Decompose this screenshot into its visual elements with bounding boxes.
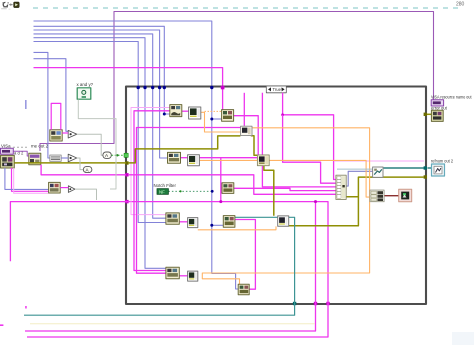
wire: olive stub under build array — [339, 196, 358, 198]
junction: blue dots inside — [210, 118, 213, 121]
comparison triangle T2 — [68, 154, 77, 162]
wire: magenta band vertical 2 to node N1d — [137, 128, 241, 274]
junction: magenta tunnel on top border — [221, 86, 225, 90]
node: VISA open (name out 2) — [29, 153, 41, 164]
junction: olive tunnel on left border — [125, 161, 128, 164]
wire: orange N2b out to unbundle left input — [199, 160, 370, 197]
junction: magenta dot at 282.6,114.8 — [281, 113, 284, 116]
wire: magenta mid node output to build array — [234, 188, 336, 190]
node N2b: display row2 (dark icon) — [188, 155, 200, 166]
svg-text:refnum out 2: refnum out 2 — [431, 159, 454, 164]
wire: magenta row1 node to display — [182, 110, 189, 112]
node: ring indicator (red border) — [399, 189, 412, 202]
node: boolean local A (oval) — [103, 152, 111, 158]
node: lavender stub segment left — [25, 100, 27, 109]
junction: blue tunnel dots on top border — [137, 86, 140, 89]
node: build array — [336, 175, 346, 199]
wire: magenta stub at very top of bottom-left lines — [25, 306, 27, 309]
wire: blue short line 8 — [34, 59, 69, 132]
wire: green dashed boolean wire A to tunnel — [112, 154, 125, 156]
node N3c: analysis VI row3 (yellow) — [223, 216, 235, 228]
toolbar icon: run button dark square — [14, 2, 20, 8]
wire: magenta y174.8 to build-array feeder x253.8 — [128, 175, 336, 195]
svg-text:280: 280 — [456, 2, 465, 8]
case selector label True — [266, 86, 286, 93]
node N4b: display row4 (dark icon) — [188, 271, 198, 281]
wire: violet array wire build array to write node — [346, 171, 372, 186]
node N1b: waveform display (dark icon) — [189, 107, 201, 119]
wire: olive error path: border to N1d lower input — [128, 136, 240, 163]
wire: magenta from border down to node N1d — [243, 93, 245, 126]
junction: bottom border tunnels — [293, 302, 296, 305]
wire: purple short link VISA box to node — [13, 151, 28, 156]
wire: blue bundle line 6 — [34, 42, 167, 223]
wire: gray frame wire from x-and-y block — [78, 99, 116, 189]
node N2c: VI with dark center row2 right (yellow) — [257, 155, 269, 166]
node: unbundle by name (striped) — [370, 190, 384, 202]
wire: pale blue into write node — [337, 168, 373, 170]
node: boolean local A 2 (oval) — [83, 167, 92, 173]
wire: magenta from tan block down and right (y191.5) — [12, 168, 49, 191]
node N3b: display row3 (dark icon) — [188, 218, 198, 228]
decorative faint corner smudge — [452, 332, 474, 345]
wire: magenta long left wire y201.6 with dangling drop — [10, 202, 328, 337]
wire: magenta drop from y157.7 joining y201.6 line — [220, 158, 222, 202]
wire: magenta x282.6 lower leg and y162.2 branch — [283, 115, 336, 183]
wire: magenta N2a to N2b — [181, 157, 188, 159]
wire: magenta drop x315.5 from long line to bottom — [25, 202, 316, 331]
svg-text:error out: error out — [431, 105, 448, 110]
wire: blue from tan block down and right (y189.6) — [5, 168, 49, 190]
junction: teal + olive tunnels on right border — [424, 166, 427, 169]
wire: blue striped block to T2 — [61, 157, 68, 159]
svg-text:NF: NF — [159, 189, 165, 194]
node: scaling node left-bottom (yellow) — [49, 182, 61, 193]
wire: blue bundle line 3 — [34, 30, 168, 158]
node N3a: instrument VI row3 (yellow) — [166, 213, 179, 224]
wire: light pink y161 to right border — [334, 160, 424, 162]
wire: orange N3b out to white node bottom — [198, 226, 276, 229]
node: left cluster constant block (tan) — [1, 155, 15, 168]
svg-text:VISA resource name out: VISA resource name out — [431, 95, 472, 100]
wire: olive N2c out to white node top — [264, 166, 274, 216]
wire: teal from N3c to bottom left line — [24, 217, 295, 315]
wire: magenta band vertical 1 — [134, 111, 170, 271]
node N4a: instrument VI row4 (yellow) — [166, 267, 179, 278]
wire: pale yellow faint bottom wire — [30, 323, 315, 325]
node: VISA resource name out indicator (purple box) — [431, 100, 443, 106]
svg-text:VISa: VISa — [1, 144, 11, 149]
wire: magenta stub at left edge bottom — [0, 324, 3, 326]
wire: magenta N1c out to N2c top — [234, 116, 258, 155]
svg-text:Notch Filter: Notch Filter — [154, 183, 177, 188]
node: white node with dark icon (matrix) — [278, 216, 289, 226]
wire: magenta N4a to N4b — [179, 275, 187, 277]
wire: teal dashed timing wire (top) — [33, 7, 463, 9]
wire: orange N1d out big loop right and down to N4c — [202, 128, 369, 284]
svg-text:True: True — [273, 87, 282, 92]
wire: olive stub outside loop to error out block — [426, 113, 431, 115]
wire: light pink band vertical — [131, 108, 170, 215]
case structure border — [126, 87, 426, 305]
wire: olive N1d out to N2c top — [251, 136, 258, 156]
wire: magenta N3c output down to N4c — [235, 220, 255, 290]
svg-text:me out 2: me out 2 — [31, 144, 49, 149]
wire: magenta top long wire into loop — [34, 68, 223, 110]
node N1a: instrument VI row1 (yellow) — [170, 105, 182, 117]
node: VISA resource name control (purple box) — [1, 148, 14, 154]
wire: olive white node out up to border tunnel — [289, 177, 424, 226]
wire: light pink parallel wire — [14, 168, 49, 193]
node N1c: analysis VI (yellow) — [222, 110, 234, 122]
node N1d: small dark node — [241, 126, 252, 135]
wire: green dotted notch filter enable — [168, 190, 212, 192]
wire: gray T1 output to A local — [77, 134, 103, 155]
node: VISA read node (row0 left, yellow) — [50, 130, 62, 141]
wire: blue bundle line 4 — [34, 34, 167, 218]
wire: orange N1b out to N1d lower-left input — [201, 112, 240, 132]
wire: blue bundle line 5 — [34, 38, 167, 269]
wire: olive error wire from tan block to loop — [14, 162, 126, 164]
wire: blue bundle line 2 — [34, 26, 170, 114]
wire: blue branch from x209 to node N1c — [212, 118, 222, 120]
toolbar icon: anchor/clamp tool — [3, 2, 9, 7]
wire: blue short line 7 — [34, 52, 51, 158]
svg-text:x and y?: x and y? — [77, 82, 94, 87]
node: refnum out 2 indicator (cyan border) — [432, 164, 445, 176]
wire: dashed gray error-in wire — [13, 146, 29, 148]
node: express VI x and y? (green) — [77, 88, 91, 99]
wire: magenta row2 between nodes — [199, 157, 257, 159]
node: Notch Filter express (green) — [157, 189, 168, 195]
wire: magenta node to T1 — [62, 132, 68, 134]
comparison triangle T1 — [68, 130, 77, 138]
wire: magenta node to triangle T3 — [60, 187, 68, 189]
junction: green boolean tunnel on left border — [124, 153, 128, 157]
junction: magenta tunnels on left border — [125, 173, 128, 176]
wire: gray T3 output — [75, 189, 97, 200]
wire: blue branch to N3c — [212, 224, 224, 226]
wire: orange dotted N1b to N1c — [205, 110, 223, 112]
wire: purple VISA resource long wire — [40, 12, 434, 152]
comparison triangle T3 — [68, 186, 75, 193]
wire: magenta from selector right down, corner to build array — [283, 93, 336, 180]
node N4c: analysis VI row4 (yellow) — [238, 284, 249, 295]
wire: magenta from name-out-2 node down to y175 — [41, 165, 126, 175]
toolbar tiny marks below — [1, 7, 7, 10]
node: write/route VI (white, top right) — [373, 167, 383, 177]
node Nmid: analysis VI mid (yellow) — [222, 183, 234, 194]
wire: magenta corner above VISA read node — [51, 103, 61, 129]
wire: dark red from unbundle to ring node — [384, 195, 399, 197]
wire: blue bundle line 1 (turns down at x209) — [34, 21, 240, 289]
wire: gray T2 output to A local 2 — [77, 158, 84, 170]
toolbar icon: arrow tool — [9, 3, 13, 6]
wire: magenta N3a to N3b — [179, 221, 187, 223]
node: striped coercion block — [50, 155, 61, 161]
wire: teal outside loop to refnum block — [428, 167, 432, 169]
node N2a: instrument VI row2 (yellow) — [168, 152, 181, 163]
wire: magenta from selector left down to build array input — [262, 93, 336, 187]
wire: teal from write node to refnum tunnel — [383, 167, 424, 169]
node: error out cluster (tan block) — [431, 110, 443, 121]
